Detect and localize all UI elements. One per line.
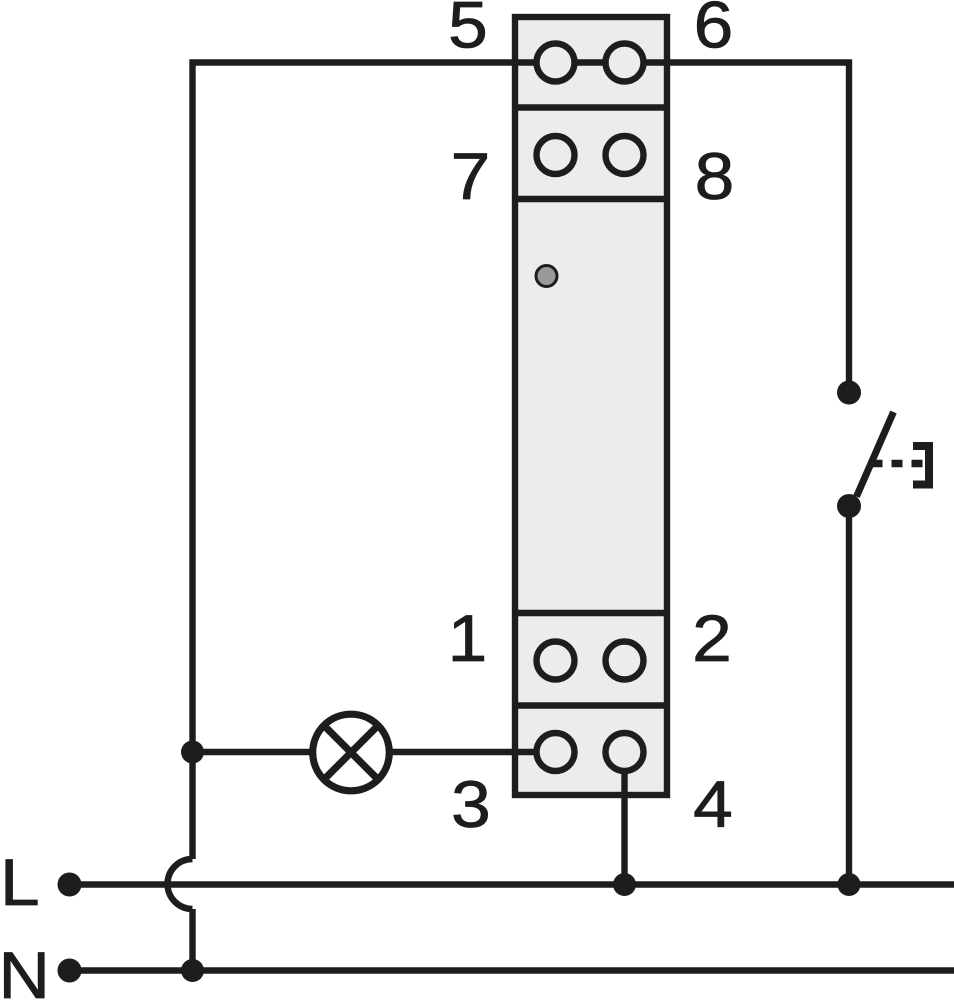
junction node: terminal 4 drop to L bus xyxy=(613,873,636,896)
wire: terminal 4 drop to L bus xyxy=(621,752,627,885)
terminal L dot xyxy=(58,873,82,897)
wire: left riser lower segment to N xyxy=(189,909,195,971)
wire: lamp branch from riser to terminal 3 xyxy=(193,749,556,755)
wire: hop over L bus xyxy=(168,859,193,909)
svg-text:8: 8 xyxy=(695,139,735,213)
svg-text:2: 2 xyxy=(692,601,732,675)
LED indicator xyxy=(536,266,557,287)
terminal 1 xyxy=(537,642,575,680)
svg-text:7: 7 xyxy=(451,139,491,213)
terminal 8 xyxy=(606,136,644,174)
terminal 5 xyxy=(537,44,575,82)
terminal 6 xyxy=(606,44,644,82)
junction node: left riser to N bus xyxy=(181,959,204,982)
terminal 4 xyxy=(606,733,644,771)
svg-text:4: 4 xyxy=(693,767,733,841)
wire: N bus xyxy=(70,967,954,973)
svg-text:6: 6 xyxy=(694,0,734,62)
terminal 2 xyxy=(606,642,644,680)
relay module K1 body xyxy=(515,17,667,795)
svg-text:L: L xyxy=(0,845,40,919)
junction node: switch riser to L bus xyxy=(838,873,861,896)
wire: left riser xyxy=(189,60,195,860)
terminal N dot xyxy=(58,959,82,983)
wire: switch riser upper xyxy=(846,60,852,386)
wire: L bus xyxy=(70,881,954,887)
wire: switch riser lower xyxy=(846,506,852,885)
switch S1 push-button xyxy=(837,381,929,519)
svg-text:N: N xyxy=(0,938,50,1001)
svg-text:5: 5 xyxy=(448,0,488,62)
lamp E1 xyxy=(313,714,390,791)
terminal 7 xyxy=(537,136,575,174)
terminal 3 xyxy=(537,733,575,771)
svg-text:3: 3 xyxy=(451,767,491,841)
svg-text:1: 1 xyxy=(448,601,488,675)
junction node: lamp branch on left riser xyxy=(181,741,204,764)
wire: top bus from left riser through terminals 5-6 to switch branch xyxy=(190,59,853,65)
